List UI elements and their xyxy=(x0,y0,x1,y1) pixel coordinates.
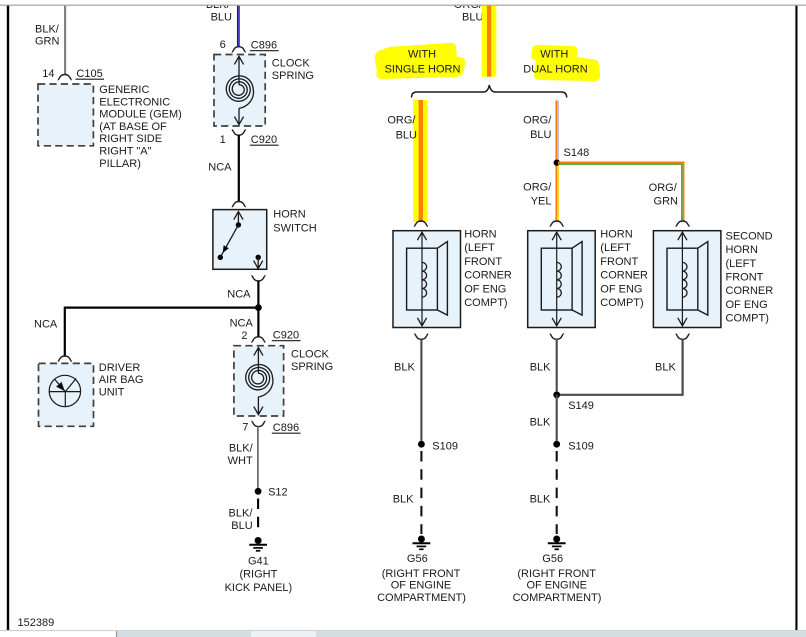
label SECOND HORN xyxy=(726,230,774,324)
horn switch output cup xyxy=(251,276,265,281)
svg-text:FRONT: FRONT xyxy=(600,256,638,268)
bottom scrollbar strip xyxy=(0,631,806,637)
connector C920 cup xyxy=(232,130,246,135)
svg-text:OF ENG: OF ENG xyxy=(726,299,768,311)
horn switch contacts xyxy=(218,212,263,269)
top border line xyxy=(0,4,806,6)
svg-text:GRN: GRN xyxy=(654,195,679,207)
connector C896 cup (pin 7) xyxy=(251,421,265,426)
svg-text:COMPARTMENT): COMPARTMENT) xyxy=(377,592,466,604)
svg-text:C896: C896 xyxy=(273,422,299,434)
svg-text:C920: C920 xyxy=(251,134,277,146)
horn 2 input arch xyxy=(550,221,564,226)
svg-text:CORNER: CORNER xyxy=(726,285,774,297)
clock spring 1 box xyxy=(214,55,265,127)
svg-text:KICK PANEL): KICK PANEL) xyxy=(225,582,293,594)
wire NCA below switch xyxy=(257,281,259,308)
svg-text:NCA: NCA xyxy=(230,318,254,330)
wire BLK horn 1 xyxy=(420,339,422,441)
second horn xyxy=(653,231,721,328)
svg-text:BLK: BLK xyxy=(393,494,414,506)
svg-text:ORG/: ORG/ xyxy=(523,115,552,127)
svg-text:COMPT): COMPT) xyxy=(726,313,769,325)
svg-text:RIGHT SIDE: RIGHT SIDE xyxy=(99,133,162,145)
svg-text:S149: S149 xyxy=(568,400,594,412)
node S12 xyxy=(255,488,262,495)
horn 1 input arch xyxy=(414,221,428,226)
wire NCA horizontal to air bag xyxy=(65,308,259,356)
node S109 horn 1 xyxy=(418,441,425,448)
wire BLK/GRN from top to C105 xyxy=(64,6,66,75)
horn 3 output cup xyxy=(676,334,690,339)
connector C896 arch xyxy=(232,47,246,52)
svg-text:UNIT: UNIT xyxy=(99,387,125,399)
svg-text:HORN: HORN xyxy=(726,244,758,256)
svg-text:SPRING: SPRING xyxy=(291,361,333,373)
svg-text:OF ENGINE: OF ENGINE xyxy=(526,580,587,592)
svg-text:BLU: BLU xyxy=(396,130,417,142)
svg-text:7: 7 xyxy=(242,422,248,434)
svg-text:HORN: HORN xyxy=(273,209,305,221)
svg-text:BLU: BLU xyxy=(530,129,551,141)
svg-text:S148: S148 xyxy=(564,147,590,159)
svg-text:SPRING: SPRING xyxy=(272,70,314,82)
svg-text:C920: C920 xyxy=(273,330,299,342)
wire ORG/BLU highlighted feed xyxy=(482,5,497,77)
svg-text:OF ENG: OF ENG xyxy=(464,283,506,295)
svg-text:ORG/: ORG/ xyxy=(387,115,416,127)
horn 3 input arch xyxy=(676,221,690,226)
wire BLK/BLU dashed to ground xyxy=(257,499,259,536)
svg-text:(AT BASE OF: (AT BASE OF xyxy=(99,121,167,133)
svg-text:DRIVER: DRIVER xyxy=(99,362,141,374)
svg-text:CORNER: CORNER xyxy=(464,270,512,282)
highlight WITH SINGLE HORN xyxy=(375,43,465,79)
clock spring 2 coil symbol xyxy=(246,349,273,415)
horn 1 (left front corner of eng compt) xyxy=(393,231,461,328)
wire NCA below junction xyxy=(257,308,259,337)
svg-text:SECOND: SECOND xyxy=(726,230,773,242)
svg-text:S109: S109 xyxy=(568,441,594,453)
svg-text:DUAL HORN: DUAL HORN xyxy=(523,64,587,76)
horn switch input arch xyxy=(232,202,246,207)
svg-text:HORN: HORN xyxy=(464,229,496,241)
svg-text:(RIGHT FRONT: (RIGHT FRONT xyxy=(382,568,461,580)
wire ORG/BLU single-horn branch (highlighted) xyxy=(413,100,427,222)
svg-text:1: 1 xyxy=(220,134,226,146)
air bag squib symbol xyxy=(49,375,80,406)
brace split xyxy=(412,85,567,98)
wire BLK dashed horn 2 xyxy=(556,451,558,534)
wire ORG/YEL xyxy=(555,166,557,221)
node S109 horn 2 xyxy=(553,441,560,448)
svg-text:2: 2 xyxy=(241,330,247,342)
svg-text:S12: S12 xyxy=(268,487,288,499)
right page border xyxy=(795,5,797,630)
ground G56 horn 1 xyxy=(418,536,425,543)
svg-text:CORNER: CORNER xyxy=(600,270,648,282)
wire BLK/WHT xyxy=(257,426,259,488)
svg-text:COMPT): COMPT) xyxy=(464,297,507,309)
driver air bag unit box xyxy=(39,363,94,426)
svg-text:BLK/: BLK/ xyxy=(229,443,254,455)
svg-text:MODULE (GEM): MODULE (GEM) xyxy=(99,109,182,121)
label HORN 2 xyxy=(600,229,648,310)
svg-text:WHT: WHT xyxy=(228,455,253,467)
wire BLK horn 2 xyxy=(556,339,558,391)
svg-text:WITH: WITH xyxy=(408,49,436,61)
horn 1 output cup xyxy=(414,334,428,339)
top clip band xyxy=(0,0,806,5)
svg-text:C105: C105 xyxy=(76,68,102,80)
left page border xyxy=(7,5,9,630)
svg-text:OF ENGINE: OF ENGINE xyxy=(391,580,452,592)
svg-text:(LEFT: (LEFT xyxy=(600,242,631,254)
svg-text:RIGHT "A": RIGHT "A" xyxy=(99,146,151,158)
svg-text:AIR BAG: AIR BAG xyxy=(99,374,144,386)
svg-text:HORN: HORN xyxy=(600,229,632,241)
GEM label xyxy=(99,84,182,170)
svg-text:BLK/: BLK/ xyxy=(35,24,60,36)
highlight WITH DUAL HORN xyxy=(531,45,600,81)
svg-text:BLK: BLK xyxy=(394,362,415,374)
connector C105 arch xyxy=(58,75,72,80)
clock spring 1 coil symbol xyxy=(226,58,253,125)
ground G41 xyxy=(255,537,262,544)
GEM module box xyxy=(38,84,93,146)
svg-text:PILLAR): PILLAR) xyxy=(99,158,141,170)
svg-text:NCA: NCA xyxy=(227,289,251,301)
horn 2 output cup xyxy=(550,334,564,339)
svg-text:(LEFT: (LEFT xyxy=(464,242,495,254)
node NCA junction xyxy=(255,304,262,311)
svg-text:WITH: WITH xyxy=(540,49,568,61)
wire BLK dashed horn 1 xyxy=(420,451,422,534)
svg-text:OF ENG: OF ENG xyxy=(600,283,642,295)
svg-text:(RIGHT: (RIGHT xyxy=(239,569,277,581)
svg-text:GENERIC: GENERIC xyxy=(99,84,149,96)
svg-text:BLK: BLK xyxy=(655,362,676,374)
horn switch box xyxy=(213,210,267,270)
svg-text:BLK/: BLK/ xyxy=(229,508,254,520)
clock spring 2 box xyxy=(234,346,284,416)
svg-text:BLK: BLK xyxy=(530,362,551,374)
svg-text:SWITCH: SWITCH xyxy=(273,223,316,235)
svg-text:152389: 152389 xyxy=(18,617,55,629)
svg-text:CLOCK: CLOCK xyxy=(272,58,311,70)
svg-text:BLK: BLK xyxy=(530,494,551,506)
svg-text:ELECTRONIC: ELECTRONIC xyxy=(99,96,170,108)
svg-text:NCA: NCA xyxy=(34,319,58,331)
wire BLK/BLU xyxy=(237,6,239,47)
svg-text:BLU: BLU xyxy=(462,12,483,24)
svg-text:(RIGHT FRONT: (RIGHT FRONT xyxy=(517,568,596,580)
ground G56 horn 2 xyxy=(553,536,560,543)
svg-text:NCA: NCA xyxy=(208,162,232,174)
svg-text:C896: C896 xyxy=(251,40,277,52)
svg-text:G56: G56 xyxy=(542,553,563,565)
svg-text:14: 14 xyxy=(42,68,54,80)
svg-text:CLOCK: CLOCK xyxy=(291,349,330,361)
svg-text:FRONT: FRONT xyxy=(726,272,764,284)
svg-text:S109: S109 xyxy=(432,441,458,453)
svg-text:COMPT): COMPT) xyxy=(600,297,643,309)
wire BLK horn 3 to S149 xyxy=(557,339,683,395)
wire NCA to horn switch xyxy=(238,135,240,202)
wire ORG/GRN to second horn xyxy=(558,162,684,220)
svg-text:COMPARTMENT): COMPARTMENT) xyxy=(513,592,602,604)
node S149 xyxy=(553,391,560,398)
wire ORG/BLU dual branch xyxy=(555,101,557,161)
svg-text:YEL: YEL xyxy=(531,195,552,207)
svg-text:BLU: BLU xyxy=(231,520,252,532)
svg-text:6: 6 xyxy=(220,39,226,51)
wire BLK S149 to S109 xyxy=(556,395,558,441)
svg-text:(LEFT: (LEFT xyxy=(726,258,757,270)
svg-text:BLK: BLK xyxy=(530,416,551,428)
svg-text:G41: G41 xyxy=(248,556,269,568)
svg-text:ORG/: ORG/ xyxy=(523,181,552,193)
svg-text:BLU: BLU xyxy=(211,12,232,24)
connector C920 arch (pin 2) xyxy=(251,337,265,342)
svg-text:SINGLE HORN: SINGLE HORN xyxy=(385,64,461,76)
air bag connector arch xyxy=(58,356,72,361)
node S148 xyxy=(554,160,560,166)
label HORN 1 xyxy=(464,229,512,310)
horn 2 (left front corner of eng compt) xyxy=(528,231,596,328)
svg-text:GRN: GRN xyxy=(35,36,60,48)
svg-text:G56: G56 xyxy=(407,553,428,565)
svg-text:FRONT: FRONT xyxy=(464,256,502,268)
svg-text:ORG/: ORG/ xyxy=(649,182,678,194)
